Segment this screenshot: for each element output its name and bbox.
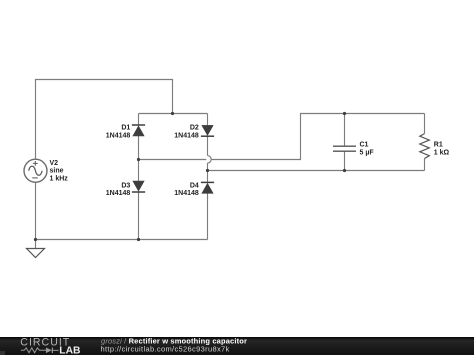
- svg-text:LAB: LAB: [59, 345, 80, 355]
- wire lower rail (node N): [208, 170, 425, 172]
- diode D3: [132, 181, 145, 192]
- wire right column D2 to hop: [207, 136, 209, 155]
- wire V2 bottom to ground: [35, 182, 37, 248]
- diode D4: [201, 182, 214, 193]
- svg-text:1N4148: 1N4148: [106, 132, 131, 139]
- svg-text:1 kΩ: 1 kΩ: [434, 149, 450, 156]
- junction node A dot: [171, 112, 174, 115]
- wire top loop from V2 to bridge top rail: [36, 80, 173, 160]
- wire C1 bottom stub: [344, 152, 346, 171]
- svg-text:http://circuitlab.com/c526c93r: http://circuitlab.com/c526c93ru8x7k: [101, 344, 230, 353]
- svg-text:1 kHz: 1 kHz: [50, 175, 69, 182]
- wire middle rail left of hop: [139, 159, 207, 161]
- D2 labels: [174, 125, 199, 140]
- R1 labels: [434, 142, 450, 157]
- svg-text:D2: D2: [190, 125, 199, 132]
- voltage source V2: [24, 159, 47, 182]
- ground: [27, 249, 45, 258]
- V2 labels: [50, 160, 69, 182]
- wire bottom rail (node B): [36, 239, 208, 241]
- svg-text:C1: C1: [360, 142, 369, 149]
- svg-text:D4: D4: [190, 182, 199, 189]
- wire right column lower (D4 to bottom rail): [207, 193, 209, 239]
- D4 labels: [174, 182, 199, 197]
- wire right column upper (node A to D2): [207, 114, 209, 126]
- svg-text:sine: sine: [50, 168, 64, 175]
- svg-text:1N4148: 1N4148: [174, 132, 199, 139]
- wire middle rail to top right rail (node P): [211, 114, 424, 160]
- svg-text:1N4148: 1N4148: [174, 190, 199, 197]
- footer bar: [0, 337, 474, 355]
- svg-text:R1: R1: [434, 142, 443, 149]
- wire hop over middle rail: [208, 156, 212, 163]
- junction left column bottom dot: [137, 238, 140, 241]
- C1 labels: [360, 142, 375, 157]
- CircuitLab logo: [20, 337, 80, 355]
- wire left column upper (node A to D1): [138, 114, 140, 126]
- wire R1 bottom stub: [424, 159, 426, 171]
- svg-text:D1: D1: [121, 125, 130, 132]
- junction node N dot: [206, 169, 209, 172]
- junction node P dot: [137, 158, 140, 161]
- wire R1 top stub: [424, 114, 426, 134]
- diode D1: [132, 125, 145, 136]
- wire bridge top rail node A: [139, 113, 208, 115]
- svg-text:5 µF: 5 µF: [360, 149, 375, 156]
- wire left column middle (D1 to D3): [138, 136, 140, 181]
- svg-text:V2: V2: [50, 160, 59, 167]
- D3 labels: [106, 182, 131, 197]
- resistor R1: [420, 134, 430, 159]
- junction C1 bottom dot: [343, 169, 346, 172]
- wire right column hop to node N: [207, 163, 209, 182]
- junction C1 top dot: [343, 112, 346, 115]
- wire C1 top stub: [344, 114, 346, 146]
- junction ground dot: [34, 238, 37, 241]
- diode D2: [201, 125, 214, 136]
- capacitor C1: [333, 146, 356, 151]
- svg-text:D3: D3: [121, 182, 130, 189]
- D1 labels: [106, 125, 131, 140]
- wire left column lower (D3 to bottom rail): [138, 192, 140, 239]
- svg-text:1N4148: 1N4148: [106, 190, 131, 197]
